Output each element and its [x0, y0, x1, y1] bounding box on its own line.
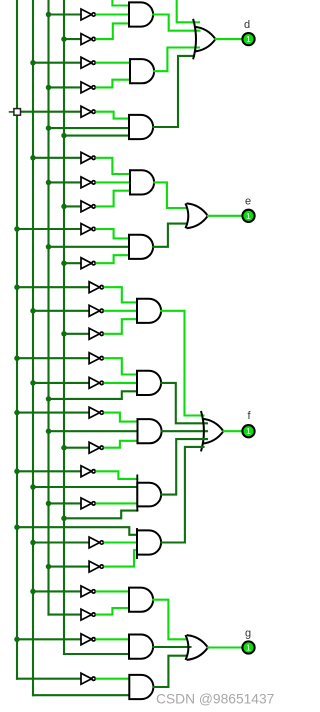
wire bus line L4 [63, 0, 65, 654]
inverter U1 input wire [49, 13, 82, 15]
junction L2/A9 wire [30, 484, 36, 490]
junction L4/U2 [61, 36, 67, 42]
wire O4 output to LED g [208, 646, 242, 648]
inverter U15 input wire [33, 382, 89, 384]
junction L4/A9 wire [61, 516, 67, 522]
inverter U21 [89, 561, 103, 572]
inverter U19 [81, 498, 95, 509]
inverter U19 input wire [49, 502, 82, 504]
inverter U9 output wire [97, 229, 130, 238]
or-gate O1 [194, 27, 215, 39]
wire A6 output to O3 [161, 311, 204, 416]
inverter U22 output wire [97, 590, 130, 592]
inverter U8 output wire [97, 191, 131, 207]
inverter U17 output wire [105, 441, 138, 448]
inverter U8 input wire [64, 205, 81, 207]
wire L4 elbow to A12 [64, 653, 129, 655]
wire bus line L1 (input net) [16, 0, 18, 679]
inverter U13 [89, 328, 103, 339]
inverter U20 [89, 537, 103, 548]
inverter U10 [81, 258, 95, 269]
junction L2/U3 [30, 60, 36, 65]
inverter U10 input wire [64, 262, 81, 264]
inverter U11 output wire [105, 287, 137, 302]
inverter U8 [81, 201, 95, 212]
junction L3/A3 wire [46, 125, 52, 131]
and-gate A10 [136, 528, 138, 559]
inverter U16 output wire [105, 413, 138, 422]
svg-text:e: e [245, 196, 251, 208]
inverter U18 input wire [17, 470, 81, 472]
wire A13 output to O4 [154, 656, 187, 687]
and-gate A2 [130, 59, 154, 83]
input pin P1 [14, 109, 21, 116]
inverter U1 [81, 9, 95, 20]
wire A9 output to O3 [161, 439, 207, 495]
inverter U11 [89, 282, 103, 293]
inverter U18 [81, 466, 95, 477]
or-gate O2 [187, 203, 208, 215]
and-gate A12 [129, 635, 153, 659]
wire L2 to A9 input [33, 486, 137, 488]
svg-text:g: g [245, 628, 251, 640]
or-gate O3 [202, 419, 223, 431]
wire O1 input from above [177, 0, 199, 22]
inverter U1 output wire [97, 13, 130, 15]
inverter U24 input wire [17, 638, 81, 640]
wire A4 output to O2 [154, 182, 187, 208]
and-gate A11 [129, 588, 153, 612]
wire L2 elbow to A13 [33, 694, 129, 696]
inverter U16 input wire [17, 412, 89, 414]
inverter U22 input wire [33, 590, 81, 592]
inverter U17 [89, 442, 103, 453]
output pin e [243, 210, 255, 222]
wire bus line L2 [32, 0, 34, 695]
inverter U13 input wire [64, 333, 89, 335]
and-gate A8 [138, 419, 162, 443]
wire L4 to A3 input [64, 135, 129, 137]
and-gate A3 [129, 115, 153, 139]
wire O3 output to LED f [224, 430, 242, 432]
inverter U10 output wire [97, 255, 130, 263]
inverter U6 output wire [97, 158, 131, 174]
svg-text:1: 1 [246, 643, 251, 653]
inverter U17 input wire [64, 447, 89, 449]
inverter U12 input wire [33, 310, 89, 312]
svg-text:1: 1 [246, 211, 251, 221]
wire A11 output to O4 [153, 600, 187, 640]
wire A1 output to O1 [153, 15, 200, 31]
svg-text:d: d [244, 19, 250, 31]
junction L2/U22 [30, 589, 36, 595]
svg-text:f: f [247, 410, 251, 422]
junction L4/U8 [61, 204, 67, 210]
output pin f [243, 425, 255, 437]
wire L3 to A3 input [49, 127, 130, 129]
inverter U7 [81, 177, 95, 188]
junction L2/U15 [30, 380, 36, 386]
inverter U7 output wire [97, 181, 131, 183]
inverter U25 input wire [80, 678, 82, 680]
inverter U24 [81, 634, 95, 645]
inverter U16 [89, 407, 103, 418]
inverter U19 output wire [97, 502, 138, 504]
wire L3 elbow to U23 [49, 614, 82, 616]
junction L4/U10 [61, 260, 67, 266]
junction L4/A3 wire [61, 133, 67, 139]
junction L4/U17 [61, 445, 67, 451]
and-gate A4 [130, 170, 154, 194]
svg-text:1: 1 [246, 426, 251, 436]
inverter U4 [81, 82, 95, 93]
inverter U18 output wire [97, 471, 138, 479]
wire A5 output to O2 [153, 224, 187, 247]
junction L2/U20 [30, 540, 36, 546]
wire L4 to A9 input [64, 511, 137, 519]
inverter U14 output wire [105, 358, 137, 374]
wire A3 output to O1 [153, 56, 194, 127]
or-gate O4 [187, 635, 208, 647]
and-gate A7 [137, 371, 161, 395]
inverter U21 input wire [49, 566, 90, 568]
svg-text:CSDN @98651437: CSDN @98651437 [156, 692, 274, 707]
junction L1/A10 wire [14, 524, 20, 530]
inverter U21 output wire [105, 550, 137, 566]
junction L1/U11 [14, 284, 20, 290]
inverter U5 [81, 106, 95, 117]
inverter U23 output wire [97, 608, 130, 615]
wire L3 to A8 input [49, 430, 138, 432]
inverter U22 [81, 586, 95, 597]
wire O2 output to LED e [208, 215, 242, 217]
junction L2/U12 [30, 308, 36, 314]
inverter U15 output wire [105, 382, 137, 384]
inverter U5 input wire [21, 111, 82, 113]
junction L2/U6 [30, 155, 36, 161]
inverter U13 output wire [105, 319, 137, 334]
wire O1 output to LED d [216, 38, 242, 40]
inverter U14 input wire [17, 357, 89, 359]
junction L1/U16 [14, 410, 20, 416]
junction L1/U24 [14, 637, 20, 643]
wire A8 output to O3 [162, 430, 207, 432]
junction L1/U14 [14, 355, 20, 361]
inverter U23 input wire [80, 614, 82, 616]
inverter U11 input wire [17, 286, 89, 288]
output pin d [243, 33, 255, 45]
wire A2 output to O1 [154, 48, 199, 72]
inverter U20 input wire [33, 541, 89, 543]
inverter U2 [81, 34, 95, 45]
wire A10 output to O3 [161, 447, 203, 543]
and-gate A1 [129, 2, 153, 26]
wire L1 to A10 input [17, 527, 137, 535]
junction L3/A5 wire [46, 244, 52, 250]
inverter U14 [89, 353, 103, 364]
junction L3/U21 [46, 564, 52, 570]
inverter U4 input wire [49, 86, 82, 88]
inverter U7 input wire [49, 181, 82, 183]
inverter U9 input wire [17, 228, 81, 230]
wire A1 top input from above [112, 0, 129, 6]
junction L3/U4 [46, 85, 52, 91]
inverter U4 output wire [97, 80, 131, 88]
input pin P1 stub [9, 111, 14, 113]
inverter U25 [81, 673, 95, 684]
inverter U25 output wire [97, 678, 130, 680]
junction L3/U1 [46, 12, 52, 18]
inverter U20 output wire [105, 541, 137, 543]
inverter U6 [81, 152, 95, 163]
junction L3/A7 wire [46, 396, 52, 402]
inverter U12 [89, 305, 103, 316]
inverter U2 input wire [64, 38, 81, 40]
wire L3 to A7 input [49, 391, 138, 399]
svg-text:1: 1 [246, 34, 251, 44]
junction L1/U9 [14, 226, 20, 232]
inverter U2 output wire [97, 23, 130, 39]
wire bus line L3 [47, 0, 49, 615]
inverter U12 output wire [105, 310, 137, 312]
junction L3/U19 [46, 501, 52, 507]
junction L4/U13 [61, 331, 67, 337]
wire L3 to A5 input [49, 246, 130, 248]
wire A7 output to O3 [161, 383, 207, 423]
inverter U3 input wire [33, 62, 81, 64]
inverter U24 output wire [97, 638, 130, 640]
and-gate A9 [136, 475, 138, 512]
inverter U6 input wire [33, 157, 81, 159]
wire L1 elbow to U25 [17, 678, 81, 680]
output pin g [243, 642, 255, 654]
inverter U3 [81, 57, 95, 68]
and-gate A13 [129, 675, 153, 699]
junction L1/U18 [14, 469, 20, 475]
inverter U3 output wire [97, 62, 131, 64]
wire A12 output to O4 [153, 646, 190, 648]
junction L3/U7 [46, 180, 52, 186]
inverter U9 [81, 224, 95, 235]
inverter U5 output wire [97, 112, 130, 119]
inverter U15 [89, 377, 103, 388]
and-gate A6 [137, 299, 161, 323]
junction L3/A8 wire [46, 428, 52, 434]
and-gate A5 [129, 235, 153, 259]
inverter U23 [81, 609, 95, 620]
